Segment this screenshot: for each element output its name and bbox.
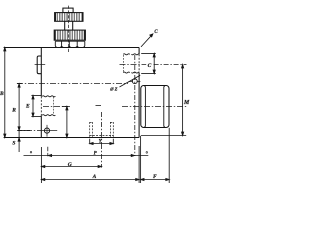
svg-text:R: R <box>11 107 16 113</box>
dimension lines <box>4 34 186 183</box>
svg-text:G: G <box>68 162 72 168</box>
body outline: left edge <box>40 48 42 97</box>
mounting hole axis dashdot left <box>17 130 42 132</box>
E port thread squiggles <box>42 96 55 116</box>
bottom port vertical axis <box>101 112 103 144</box>
tab axis tick <box>35 64 46 66</box>
dimension Y <box>89 139 91 145</box>
body outline: top edge with left extension <box>4 47 140 49</box>
lock nut under wheel <box>55 41 85 47</box>
svg-text:M: M <box>183 100 190 106</box>
ball circle Z <box>132 79 137 84</box>
main horizontal centerline <box>17 83 128 85</box>
C port thread squiggles <box>123 54 139 73</box>
extension verticals below body <box>40 147 42 183</box>
svg-text:C: C <box>148 63 152 69</box>
svg-text:Y: Y <box>99 140 103 145</box>
centerlines <box>17 55 187 168</box>
centerline near ball <box>129 81 141 83</box>
leader to label C top right <box>141 34 153 47</box>
ball vertical axis <box>134 55 136 156</box>
stem <box>64 21 66 30</box>
dimension G <box>41 166 101 168</box>
bottom port hidden thread lines <box>90 122 114 137</box>
dimension C (port size) vertical line <box>153 54 155 74</box>
mounting hole circle <box>44 128 49 133</box>
mounting hole vertical tick at P line <box>47 147 49 156</box>
hex axis right segment <box>122 106 187 108</box>
mounting hole cross ticks <box>46 125 48 137</box>
dimension B vertical line <box>4 48 6 138</box>
C hole axis <box>120 64 147 66</box>
body outline: bottom edge with left extension <box>4 137 140 139</box>
left tab port boss <box>37 56 41 74</box>
svg-text:S: S <box>12 141 15 147</box>
svg-text:A: A <box>92 174 97 180</box>
dimension A <box>41 179 139 181</box>
unlabeled axis-height dimension <box>66 107 68 138</box>
svg-text:Ø Z: Ø Z <box>109 86 117 91</box>
E / hex axis left segment <box>43 106 70 108</box>
svg-text:C: C <box>154 30 158 35</box>
svg-text:E: E <box>25 104 30 110</box>
E / hex axis mid dash <box>96 105 102 107</box>
knob cap <box>63 8 73 13</box>
svg-text:P: P <box>94 152 98 157</box>
dimension F <box>141 179 170 181</box>
dimension P chain line <box>24 155 149 157</box>
dimension M vertical line <box>182 65 184 136</box>
small o marks <box>30 151 32 153</box>
leader for Z ball <box>120 75 141 87</box>
svg-text:B: B <box>0 91 4 97</box>
knurled wheel 2 <box>54 30 85 40</box>
hex fitting on right <box>141 86 169 128</box>
dimension R/S shared vertical line <box>18 84 20 153</box>
knob axis dashed centerline <box>68 6 70 53</box>
dimension E vertical line <box>32 96 34 117</box>
body outline: right edge <box>138 48 140 55</box>
knurled wheel 1 <box>55 13 83 22</box>
svg-text:F: F <box>153 174 157 180</box>
